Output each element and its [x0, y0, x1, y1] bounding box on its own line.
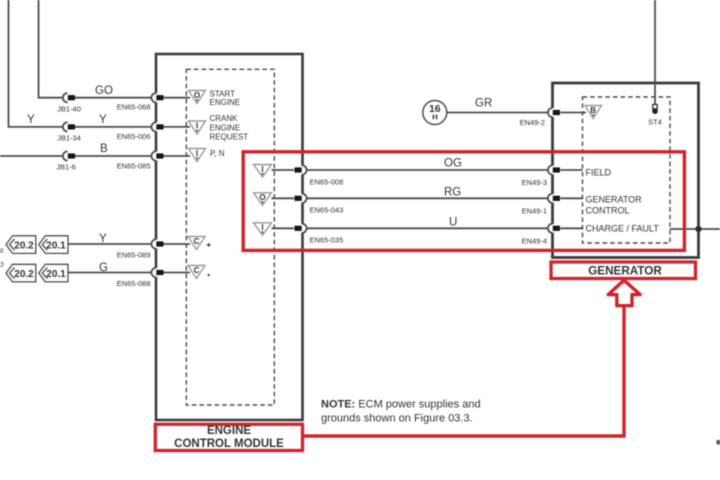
triangle B plus	[585, 106, 602, 119]
svg-text:B: B	[100, 143, 108, 155]
svg-text:NOTE: ECM power supplies and: NOTE: ECM power supplies and	[321, 399, 481, 411]
wire generator control inside generator	[561, 197, 583, 199]
connector EN49-4	[522, 224, 560, 246]
svg-text:OG: OG	[444, 158, 462, 170]
svg-text:JB1-6: JB1-6	[56, 163, 76, 172]
triangle I field	[254, 165, 272, 178]
triangle C plus	[188, 237, 211, 250]
connector EN65-085	[117, 151, 164, 170]
wire GO vertical from top	[39, 0, 67, 98]
connector EN65-008	[295, 165, 344, 186]
triangle I charge fault	[254, 223, 272, 236]
wire Y from JB1-34 to ECM	[66, 126, 190, 128]
connector EN65-035	[295, 224, 344, 245]
wire field inside generator	[561, 169, 583, 171]
offpage arrow 20.2 upper	[6, 236, 36, 254]
svg-text:I: I	[261, 165, 263, 174]
wire U inside ECM	[272, 227, 295, 229]
offpage arrow 20.2 lower	[6, 264, 36, 282]
svg-text:JB1-34: JB1-34	[57, 134, 81, 143]
wire GO from JB1-40 to ECM	[66, 97, 190, 99]
svg-text:P, N: P, N	[210, 149, 225, 158]
triangle C minus	[188, 266, 210, 279]
wire charge fault inside generator	[561, 227, 583, 229]
svg-text:B: B	[590, 106, 596, 115]
svg-text:EN65-085: EN65-085	[117, 161, 151, 170]
generator box	[553, 83, 699, 258]
svg-text:ENGINE: ENGINE	[207, 425, 251, 437]
svg-text:ENGINE: ENGINE	[210, 98, 241, 107]
edge mark bottom right	[717, 440, 720, 445]
svg-text:GENERATOR: GENERATOR	[588, 264, 662, 277]
wire G to EN65-088	[68, 272, 190, 274]
circle 16 source	[423, 101, 447, 125]
svg-text:CONTROL MODULE: CONTROL MODULE	[174, 438, 284, 450]
triangle I crank	[189, 121, 206, 134]
ECM box	[156, 54, 303, 420]
connector JB1-6	[56, 151, 76, 171]
svg-text:FIELD: FIELD	[586, 168, 612, 178]
wire B from left edge	[0, 155, 190, 157]
svg-text:EN49-2: EN49-2	[520, 118, 545, 127]
terminal ST4	[648, 105, 662, 127]
wire Y vertical from top	[9, 0, 67, 127]
wire GR	[447, 112, 548, 114]
connector JB1-40	[57, 93, 81, 113]
svg-text:C: C	[194, 266, 200, 275]
red connector line	[303, 306, 625, 436]
wire OG to generator	[307, 169, 549, 171]
svg-text:GR: GR	[475, 97, 492, 109]
svg-text:I: I	[261, 223, 263, 232]
svg-text:EN65-068: EN65-068	[117, 103, 151, 112]
svg-text:EN65-088: EN65-088	[117, 279, 151, 288]
wire RG inside ECM	[272, 197, 295, 199]
GENERATOR label red box	[551, 262, 696, 279]
svg-text:EN65-035: EN65-035	[310, 235, 344, 244]
svg-text:EN65-043: EN65-043	[310, 206, 344, 215]
svg-text:16: 16	[429, 103, 441, 115]
ECM inner dashed box	[186, 69, 274, 405]
svg-text:GENERATOR: GENERATOR	[586, 194, 643, 204]
wire RG to generator	[307, 197, 549, 199]
svg-text:20.1: 20.1	[46, 269, 66, 280]
svg-text:G: G	[99, 262, 108, 274]
wire charge fault to right edge	[670, 228, 720, 230]
svg-text:20.1: 20.1	[46, 240, 66, 251]
red highlight box	[243, 152, 684, 251]
connector EN49-2	[520, 108, 560, 127]
red block arrow	[608, 280, 640, 306]
svg-text:grounds shown on Figure 03.3.: grounds shown on Figure 03.3.	[321, 412, 473, 424]
svg-text:EN65-089: EN65-089	[117, 251, 151, 260]
ECM label red box	[155, 424, 302, 450]
offpage arrow 20.1 upper	[39, 236, 68, 254]
connector EN49-3	[522, 165, 560, 187]
svg-text:I: I	[196, 149, 198, 158]
svg-text:JB1-40: JB1-40	[57, 105, 81, 114]
connector EN65-089	[117, 239, 164, 259]
junction dot	[695, 226, 701, 232]
svg-text:RG: RG	[444, 187, 461, 199]
connector EN49-1	[522, 194, 560, 216]
note text	[321, 399, 481, 425]
svg-text:Y: Y	[99, 233, 107, 245]
svg-text:CONTROL: CONTROL	[586, 205, 630, 215]
svg-text:G: G	[0, 262, 6, 267]
svg-text:U: U	[449, 217, 457, 229]
triangle O start engine	[189, 91, 206, 104]
offpage arrow 20.1 lower	[39, 264, 68, 282]
svg-text:EN65-006: EN65-006	[117, 132, 151, 141]
svg-text:O: O	[194, 91, 200, 100]
wire OG inside ECM	[272, 169, 295, 171]
svg-text:I: I	[196, 121, 198, 130]
connector EN65-068	[117, 93, 164, 111]
connector JB1-34	[57, 122, 81, 142]
svg-text:Y: Y	[27, 114, 35, 126]
connector EN65-006	[117, 122, 164, 141]
svg-text:O: O	[259, 193, 265, 202]
wire ST4 vertical from top	[654, 0, 656, 105]
svg-text:R: R	[0, 248, 6, 253]
svg-text:EN49-4: EN49-4	[522, 237, 547, 246]
svg-text:CRANK: CRANK	[210, 114, 239, 123]
connector EN65-088	[117, 268, 164, 288]
svg-text:GO: GO	[95, 85, 113, 97]
wire Y to EN65-089	[68, 243, 190, 245]
svg-text:CHARGE / FAULT: CHARGE / FAULT	[586, 223, 660, 233]
wire U to generator	[307, 227, 549, 229]
svg-text:EN49-1: EN49-1	[522, 207, 547, 216]
triangle I p,n	[189, 149, 206, 162]
wire B+ inside generator	[561, 112, 587, 114]
svg-text:Y: Y	[99, 114, 107, 126]
svg-text:20.2: 20.2	[14, 269, 34, 280]
svg-text:EN65-008: EN65-008	[310, 178, 344, 187]
connector EN65-043	[295, 194, 344, 215]
svg-text:ENGINE: ENGINE	[210, 123, 241, 132]
svg-text:20.2: 20.2	[14, 240, 34, 251]
generator inner dashed box	[583, 97, 671, 243]
svg-text:REQUEST: REQUEST	[210, 133, 249, 142]
svg-text:ST4: ST4	[648, 118, 662, 127]
svg-text:C: C	[194, 237, 200, 246]
svg-text:EN49-3: EN49-3	[522, 178, 547, 187]
triangle O generator control	[254, 193, 272, 206]
